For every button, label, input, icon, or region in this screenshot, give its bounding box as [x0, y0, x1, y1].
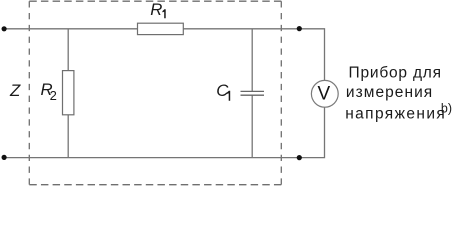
- dashed two-port network box: bottom edge: [29, 184, 281, 186]
- svg-text:2: 2: [50, 88, 57, 103]
- resistor R1: [138, 23, 184, 34]
- dashed two-port network box: right edge: [280, 1, 282, 185]
- svg-text:напряжения: напряжения: [345, 105, 446, 122]
- resistor R2: [63, 71, 74, 115]
- svg-text:Прибор для: Прибор для: [349, 64, 442, 81]
- svg-text:V: V: [318, 84, 331, 105]
- svg-text:b): b): [441, 101, 452, 115]
- svg-text:Z: Z: [9, 81, 21, 100]
- svg-text:R: R: [150, 0, 162, 19]
- node junction top-right: [297, 26, 302, 31]
- node terminal bottom-left: [2, 155, 7, 160]
- dashed two-port network box: top edge: [29, 0, 281, 2]
- node terminal top-left: [2, 26, 7, 31]
- dashed two-port network box: left edge: [28, 1, 30, 185]
- svg-text:C: C: [216, 81, 229, 100]
- voltmeter U1 circle: [311, 80, 338, 107]
- node junction bottom-right: [297, 155, 302, 160]
- capacitor C1 plates: [241, 91, 265, 95]
- wire bottom conductor: [4, 107, 325, 157]
- wire C1 branch lower: [251, 95, 253, 157]
- wire R2 branch: [67, 29, 69, 158]
- svg-text:измерения: измерения: [346, 84, 433, 101]
- wire C1 branch upper: [251, 29, 253, 92]
- wire top conductor: [4, 29, 325, 81]
